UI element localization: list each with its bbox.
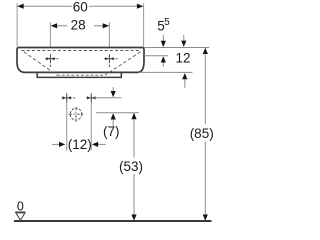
- floor line: [14, 220, 212, 222]
- svg-text:60: 60: [73, 0, 88, 15]
- svg-text:(85): (85): [190, 126, 214, 141]
- bowl hidden bottom dashed: [57, 74, 105, 76]
- dimension 28 left arrow: [51, 23, 58, 28]
- washbasin inner rim dashed: [22, 50, 141, 52]
- reference line Y5 supply height: [95, 97, 122, 99]
- datum underline: [15, 211, 25, 213]
- dimension 7 upper arrow: [112, 87, 114, 91]
- dimension 60 line: [24, 5, 72, 7]
- extension line below left cross: [66, 103, 68, 151]
- drain crosshair vertical: [75, 107, 77, 122]
- svg-text:5: 5: [164, 17, 170, 28]
- reference line Y4 drain height: [96, 112, 139, 114]
- supply cross right: [86, 93, 96, 102]
- dimension 28 line: [57, 25, 67, 27]
- dimension 12 lower arrow: [182, 73, 187, 79]
- svg-text:12: 12: [175, 50, 190, 65]
- dimension 12 upper arrow: [183, 35, 185, 41]
- dimension 5_5 lower arrow: [161, 56, 166, 62]
- tap hole cross right: [104, 54, 117, 67]
- dimension 12 bottom left arrow: [52, 143, 59, 145]
- dimension 60 left arrow: [17, 4, 24, 9]
- svg-text:(53): (53): [119, 159, 143, 174]
- tap hole cross left: [45, 54, 58, 67]
- washbasin foot lip: [37, 72, 121, 77]
- reference line Y3 bottom edge extended: [139, 71, 193, 73]
- reference line Y2: [144, 55, 168, 57]
- washbasin outline: [17, 48, 144, 73]
- dimension 5_5 upper arrow: [162, 35, 164, 41]
- drain circle dashed: [70, 108, 82, 120]
- bowl hidden contour left diagonal: [24, 52, 57, 75]
- dimension 7 lower arrow: [111, 113, 116, 119]
- extension line left of dim 60: [16, 3, 18, 46]
- extension line left of dim 28: [49, 22, 51, 63]
- reference line Y1 top edge extended: [144, 47, 209, 49]
- svg-text:(12): (12): [68, 137, 92, 152]
- dimension 12 bottom right arrow: [92, 142, 98, 147]
- datum triangle: [16, 213, 25, 220]
- dimension 53 line: [131, 113, 136, 119]
- dimension 60 right arrow: [137, 4, 144, 9]
- extension line below right cross: [90, 103, 92, 151]
- svg-text:28: 28: [71, 17, 86, 32]
- bowl hidden contour right diagonal: [105, 52, 141, 75]
- extension line right of dim 28: [108, 22, 110, 63]
- drain crosshair horizontal: [69, 113, 84, 115]
- dimension 28 right arrow: [103, 23, 110, 28]
- svg-text:(7): (7): [103, 124, 120, 139]
- dimension 85 line: [203, 48, 208, 54]
- extension line right of dim 60: [143, 3, 145, 46]
- supply cross left: [62, 93, 75, 102]
